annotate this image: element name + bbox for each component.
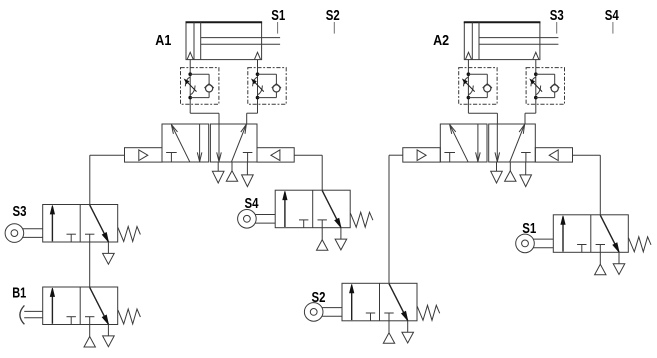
roller actuator of S2 — [304, 303, 323, 322]
junction node bottom of FC3 (A2 cap end) — [467, 96, 471, 100]
flow path arrow diagonal (right square) of V2 — [510, 124, 525, 161]
blocked exhaust (left square) of S1 — [577, 244, 586, 246]
enclosure (dash-dot box) of FC3 (A2 cap end) — [459, 68, 497, 105]
blocked supply port 1 of S1 — [596, 244, 605, 246]
roller actuator of S4 — [238, 210, 257, 229]
check valve of FC3 (A2 cap end) — [468, 73, 487, 75]
label S4 (marker) — [605, 8, 620, 24]
exhaust port 5 of V2 — [496, 162, 498, 171]
blocked supply port 1 of S2 — [384, 312, 393, 314]
3/2-way valve S3 — [5, 205, 140, 265]
return spring of S4 — [350, 212, 373, 227]
adjustable throttle of FC4 (A2 rod end) — [531, 77, 536, 86]
left position square of V2 — [440, 124, 487, 162]
flow path arrow down (right square) of V2 — [496, 124, 498, 162]
enclosure (dash-dot box) of FC2 (A1 rod end) — [248, 68, 286, 105]
flow path arrow down (left square) of V1 — [199, 124, 201, 162]
3/2-way valve S1 — [516, 215, 651, 275]
flow path arrow down (right square) of V1 — [218, 124, 220, 162]
piston rod of A2 — [479, 37, 558, 39]
position marker tick S2 — [333, 22, 335, 34]
cylinder A1 (double acting) — [186, 22, 281, 59]
piston of A2 — [471, 22, 473, 59]
supply source of B1 — [89, 325, 91, 337]
blocked port (left square) of V1 — [166, 152, 177, 154]
svg-text:A2: A2 — [433, 33, 449, 49]
label S2 (marker) — [326, 8, 340, 24]
right pneumatic pilot of V2 — [535, 148, 572, 162]
blocked port (right square) of V1 — [243, 152, 253, 154]
blocked port (right square) of V2 — [521, 152, 531, 154]
label B1 — [12, 285, 26, 301]
blocked supply port 1 of S4 — [318, 219, 327, 221]
flow path 2 to 3 (right square) of B1 — [90, 287, 109, 324]
label A1 — [155, 33, 171, 49]
right position square of V1 — [210, 124, 257, 162]
exhaust port 3 of V2 — [525, 162, 527, 175]
svg-text:S1: S1 — [271, 8, 285, 24]
position marker tick S3 — [556, 22, 558, 34]
label S3 (marker) — [550, 8, 564, 24]
svg-text:S3: S3 — [13, 204, 27, 220]
check valve of FC1 (A1 cap end) — [190, 73, 209, 75]
exhaust port 3 of B1 — [107, 325, 109, 336]
blocked exhaust (left square) of S3 — [67, 233, 76, 235]
return spring of B1 — [118, 309, 140, 324]
junction node top of FC3 (A2 cap end) — [467, 72, 471, 76]
wire FC3 (A2 cap end) to directional valve port — [468, 112, 497, 114]
label S1 (marker) — [271, 8, 285, 24]
blocked exhaust (left square) of S2 — [366, 312, 375, 314]
blocked exhaust (left square) of B1 — [67, 316, 76, 318]
exhaust port 3 of S1 — [618, 252, 620, 263]
svg-text:B1: B1 — [12, 285, 26, 301]
exhaust port 3 of V1 — [246, 162, 248, 175]
return spring of S2 — [417, 305, 440, 320]
label S4 (valve) — [245, 196, 260, 212]
flow path 2 to 3 (right square) of S4 — [322, 191, 341, 228]
flow path 2 to 3 (right square) of S3 — [90, 205, 109, 242]
position marker tick S4 — [612, 22, 614, 34]
3/2-way valve B1 — [20, 287, 140, 347]
body of S4 — [275, 190, 350, 228]
svg-text:A1: A1 — [155, 33, 171, 49]
supply port 1 of V2 — [509, 162, 511, 171]
junction node top of FC2 (A1 rod end) — [256, 72, 260, 76]
junction node top of FC1 (A1 cap end) — [188, 72, 192, 76]
5/2-way double pilot valve V2 — [403, 124, 573, 187]
flow path arrow up (left square) of S2 — [351, 286, 353, 320]
junction node top of FC4 (A2 rod end) — [534, 72, 538, 76]
cap-end port of A2 — [466, 52, 472, 59]
return spring of S1 — [629, 237, 652, 252]
right pneumatic pilot of V1 — [257, 148, 294, 162]
body of B1 — [43, 287, 118, 325]
one-way flow control valve FC1 (A1 cap end) — [181, 60, 220, 125]
one-way flow control valve FC2 (A1 rod end) — [247, 60, 287, 125]
wire valve S3 port 1 to valve B1 port 2 — [89, 242, 91, 287]
adjustable throttle of FC3 (A2 cap end) — [464, 77, 469, 86]
rod-end port of A1 — [255, 52, 261, 59]
blocked port (left square) of V2 — [444, 152, 455, 154]
exhaust port 3 of S3 — [107, 242, 109, 253]
exhaust port 3 of S2 — [407, 321, 409, 332]
enclosure (dash-dot box) of FC4 (A2 rod end) — [526, 68, 564, 105]
svg-text:S2: S2 — [326, 8, 340, 24]
flow path arrow up (left square) of S1 — [562, 217, 564, 251]
3/2-way valve S4 — [238, 190, 373, 250]
label A2 — [433, 33, 449, 49]
svg-text:S4: S4 — [605, 8, 620, 24]
body of S2 — [342, 283, 417, 321]
flow path arrow (left square) of V2 — [450, 125, 468, 162]
junction node bottom of FC4 (A2 rod end) — [534, 96, 538, 100]
supply source of S2 — [388, 321, 390, 333]
wire FC1 (A1 cap end) to directional valve port — [190, 112, 219, 114]
blocked supply port 1 of S3 — [85, 233, 94, 235]
supply port 1 of V1 — [231, 162, 233, 171]
right position square of V2 — [489, 124, 536, 162]
position marker tick S1 — [277, 22, 279, 34]
rod-end port of A2 — [533, 52, 539, 59]
5/2-way double pilot valve V1 — [125, 124, 295, 187]
return spring of S3 — [118, 227, 140, 242]
check valve of FC4 (A2 rod end) — [536, 73, 555, 75]
left position square of V1 — [162, 124, 209, 162]
wire cylinder port down through FC2 (A1 rod end) — [257, 60, 259, 114]
flow path 2 to 3 (right square) of S2 — [389, 284, 408, 321]
roller actuator of S1 — [516, 234, 535, 253]
label S1 (valve) — [522, 221, 536, 237]
label S3 (valve) — [13, 204, 27, 220]
piston rod of A1 — [201, 37, 280, 39]
left pneumatic pilot of V2 — [403, 148, 441, 162]
enclosure (dash-dot box) of FC1 (A1 cap end) — [181, 68, 219, 105]
plunger actuator of B1 — [20, 305, 25, 324]
blocked supply port 1 of B1 — [85, 316, 94, 318]
junction node bottom of FC2 (A1 rod end) — [256, 96, 260, 100]
label S2 (valve) — [312, 290, 326, 306]
flow path arrow up (left square) of B1 — [51, 290, 53, 324]
pilot wire V1 left to valve S3 — [90, 155, 125, 204]
wire FC2 (A1 rod end) to directional valve port — [247, 112, 258, 114]
3/2-way valve S2 — [304, 283, 439, 343]
one-way flow control valve FC3 (A2 cap end) — [459, 60, 498, 125]
pilot wire V2 right to valve S1 — [573, 155, 601, 215]
roller actuator of S3 — [5, 224, 24, 243]
left pneumatic pilot of V1 — [125, 148, 163, 162]
adjustable throttle of FC1 (A1 cap end) — [185, 77, 190, 86]
wire cylinder port down through FC4 (A2 rod end) — [535, 60, 537, 114]
blocked exhaust (left square) of S4 — [299, 219, 308, 221]
cap-end port of A1 — [187, 52, 193, 59]
one-way flow control valve FC4 (A2 rod end) — [525, 60, 565, 125]
flow path arrow up (left square) of S4 — [284, 193, 286, 227]
wire FC4 (A2 rod end) to directional valve port — [525, 112, 536, 114]
check valve of FC2 (A1 rod end) — [258, 73, 277, 75]
supply source of S4 — [321, 228, 323, 240]
body of S3 — [43, 205, 118, 243]
exhaust port 5 of V1 — [217, 162, 219, 171]
svg-text:S1: S1 — [522, 221, 536, 237]
adjustable throttle of FC2 (A1 rod end) — [253, 77, 258, 86]
flow path arrow down (left square) of V2 — [477, 124, 479, 162]
exhaust port 3 of S4 — [340, 228, 342, 239]
pilot wire V2 left to valve S2 — [389, 155, 403, 283]
piston of A1 — [193, 22, 195, 59]
flow path 2 to 3 (right square) of S1 — [600, 215, 619, 252]
cylinder A2 (double acting) — [464, 22, 559, 59]
pilot wire V1 right to valve S4 — [294, 155, 322, 190]
svg-text:S2: S2 — [312, 290, 326, 306]
body of S1 — [553, 215, 628, 253]
junction node bottom of FC1 (A1 cap end) — [188, 96, 192, 100]
svg-text:S3: S3 — [550, 8, 564, 24]
flow path arrow up (left square) of S3 — [51, 207, 53, 241]
wire cylinder port down through FC3 (A2 cap end) — [467, 60, 469, 114]
flow path arrow (left square) of V1 — [171, 125, 189, 162]
wire cylinder port down through FC1 (A1 cap end) — [189, 60, 191, 114]
flow path arrow diagonal (right square) of V1 — [232, 124, 247, 161]
supply source of S1 — [599, 252, 601, 264]
svg-text:S4: S4 — [245, 196, 260, 212]
